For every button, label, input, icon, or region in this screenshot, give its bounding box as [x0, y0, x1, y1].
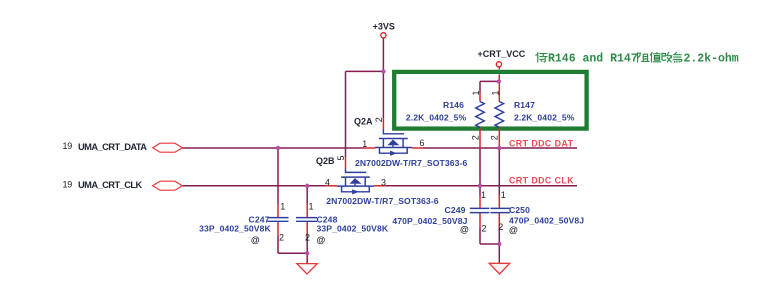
svg-text:2.2K_0402_5%: 2.2K_0402_5% [406, 112, 467, 122]
svg-text:C250: C250 [509, 205, 530, 215]
svg-text:2: 2 [305, 233, 310, 243]
svg-text:2N7002DW-T/R7_SOT363-6: 2N7002DW-T/R7_SOT363-6 [326, 196, 438, 206]
CJK char 值 [650, 52, 660, 62]
junction node CLK/R146 [478, 184, 482, 188]
wire right ground rail [480, 244, 499, 263]
junction node CLK/C248 [305, 184, 309, 188]
CJK char 將 [536, 53, 547, 63]
svg-text:6: 6 [420, 138, 425, 148]
svg-text:@: @ [251, 235, 260, 245]
transistor Q2A (2N7002DW) [375, 130, 412, 156]
junction node DATA/C247 [276, 146, 280, 150]
svg-text:CRT DDC CLK: CRT DDC CLK [509, 175, 574, 185]
svg-text:R146: R146 [443, 100, 464, 110]
junction node left ground rail [305, 251, 309, 255]
wire left ground rail [278, 253, 307, 263]
svg-text:1: 1 [481, 190, 486, 200]
ground (left) [297, 264, 318, 274]
svg-text:5: 5 [336, 155, 346, 160]
svg-text:2: 2 [374, 117, 384, 122]
junction node R146/R147 top [497, 79, 501, 83]
svg-text:+CRT_VCC: +CRT_VCC [478, 49, 526, 59]
svg-text:2: 2 [470, 135, 480, 140]
pin stub Q2A pin1 [364, 147, 376, 149]
wire C247 vertical [277, 148, 279, 253]
svg-text:@: @ [460, 225, 469, 235]
svg-text:Q2A: Q2A [354, 117, 373, 127]
pin stub R147 bottom [498, 127, 500, 148]
pin stub R146 top [479, 92, 481, 102]
CJK char 阻 [638, 53, 649, 62]
svg-text:33P_0402_50V8K: 33P_0402_50V8K [199, 224, 271, 234]
wire C248 vertical [306, 186, 308, 253]
svg-text:R147: R147 [514, 100, 535, 110]
svg-text:2N7002DW-T/R7_SOT363-6: 2N7002DW-T/R7_SOT363-6 [355, 158, 467, 168]
CJK char 改 [662, 52, 672, 62]
pin stub C248 top [306, 204, 308, 218]
pin stub C247 top [277, 204, 279, 218]
transistor Q2B (2N7002DW) [337, 168, 374, 194]
svg-text:1: 1 [471, 90, 481, 95]
pin stub C250 bottom [498, 213, 500, 227]
svg-text:3: 3 [381, 178, 386, 188]
pin stub Q2B pin3 [374, 185, 385, 187]
wire R147-C250 vertical [498, 148, 500, 244]
svg-text:1: 1 [280, 201, 285, 211]
pin stub C247 bottom [277, 222, 279, 237]
pin stub C250 top [498, 196, 500, 209]
wire +3VS branch to Q2B gate [346, 71, 384, 157]
wire R146 top branch [480, 81, 499, 92]
capacitor C247 [268, 218, 289, 222]
annotation box (green highlight) [394, 72, 586, 129]
resistor R147 [495, 102, 504, 128]
wire UMA_CRT_DATA horizontal [182, 147, 577, 149]
svg-text:19: 19 [63, 180, 73, 190]
svg-text:2: 2 [498, 222, 503, 232]
svg-text:2: 2 [279, 233, 284, 243]
pin stub C248 bottom [306, 222, 308, 237]
junction node +3VS branch [381, 69, 385, 73]
svg-text:4: 4 [325, 178, 330, 188]
power symbol +3VS [381, 33, 386, 38]
capacitor C250 [490, 208, 510, 212]
svg-text:2: 2 [490, 135, 500, 140]
svg-text:2.2K_0402_5%: 2.2K_0402_5% [514, 112, 575, 122]
svg-text:R146 and R147: R146 and R147 [548, 52, 638, 65]
junction node DAT/R147 [497, 146, 501, 150]
resistor R146 [476, 102, 485, 128]
ground (right) [489, 263, 510, 274]
wire +3VS vertical [382, 38, 384, 119]
svg-text:470P_0402_50V8J: 470P_0402_50V8J [509, 216, 584, 226]
wire R146-C249 vertical [479, 148, 481, 244]
svg-text:UMA_CRT_DATA: UMA_CRT_DATA [78, 142, 147, 152]
svg-text:470P_0402_50V8J: 470P_0402_50V8J [392, 216, 467, 226]
svg-text:2: 2 [482, 223, 487, 233]
capacitor C249 [470, 208, 490, 212]
pin stub C249 bottom [479, 213, 481, 227]
pin stub C249 top [479, 196, 481, 209]
pin stub R146 bottom [479, 127, 481, 148]
svg-text:Q2B: Q2B [316, 156, 335, 166]
svg-text:33P_0402_50V8K: 33P_0402_50V8K [317, 224, 389, 234]
svg-text:+3VS: +3VS [373, 21, 395, 31]
pin stub Q2B pin4 [326, 185, 338, 187]
svg-text:1: 1 [362, 139, 367, 149]
svg-text:C249: C249 [445, 205, 466, 215]
pin stub Q2A pin6 [412, 147, 423, 149]
svg-text:19: 19 [63, 141, 73, 151]
junction node right ground rail [497, 242, 501, 246]
capacitor C248 [296, 218, 317, 222]
svg-text:1: 1 [490, 90, 500, 95]
pin stub Q2B gate top [345, 157, 347, 168]
svg-text:@: @ [509, 225, 518, 235]
CJK char 為 [673, 52, 682, 62]
off-page connector UMA_CRT_CLK [153, 181, 183, 190]
svg-text:@: @ [317, 235, 326, 245]
wire UMA_CRT_CLK horizontal [182, 185, 577, 187]
pin stub R147 top [498, 67, 500, 102]
svg-text:1: 1 [309, 201, 314, 211]
svg-text:CRT DDC DAT: CRT DDC DAT [509, 138, 574, 148]
off-page connector UMA_CRT_DATA [153, 143, 183, 152]
svg-text:1: 1 [501, 190, 506, 200]
svg-text:2.2k-ohm: 2.2k-ohm [684, 52, 739, 65]
svg-text:UMA_CRT_CLK: UMA_CRT_CLK [78, 180, 143, 190]
annotation text (green) [536, 52, 739, 65]
power symbol +CRT_VCC [496, 62, 501, 67]
pin stub Q2A drain top [382, 119, 384, 130]
